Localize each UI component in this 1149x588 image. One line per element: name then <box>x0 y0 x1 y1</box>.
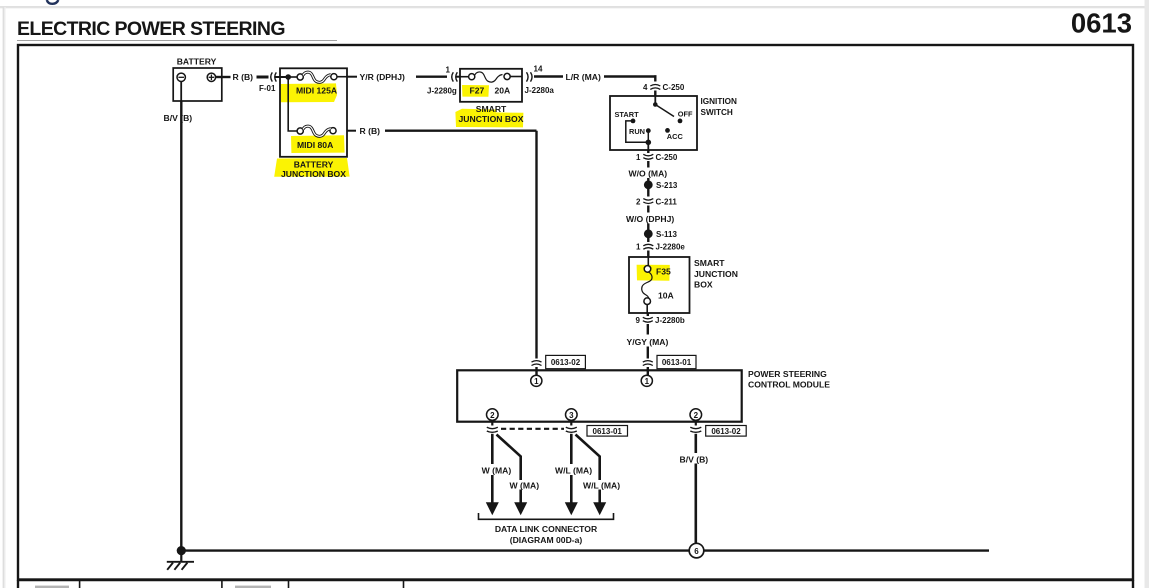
wire smart junction box to ignition switch <box>534 75 657 96</box>
svg-text:S-113: S-113 <box>656 230 677 239</box>
svg-text:1: 1 <box>645 377 650 386</box>
svg-text:ACC: ACC <box>667 132 684 141</box>
label BATTERY JUNCTION BOX <box>281 159 346 179</box>
wire stub pin 2 right <box>695 420 697 425</box>
svg-text:RUN: RUN <box>629 127 645 136</box>
svg-text:2: 2 <box>490 411 495 420</box>
wire W (MA) first <box>491 434 494 503</box>
highlight F35 <box>637 265 670 281</box>
smart junction box top <box>460 69 522 102</box>
highlight SMART JUNCTION BOX <box>455 109 523 128</box>
junction node in battery junction box <box>285 74 291 80</box>
svg-text:9: 9 <box>636 316 641 325</box>
svg-text:BATTERY: BATTERY <box>294 159 334 169</box>
ground symbol <box>167 550 194 570</box>
fuse F27 <box>460 72 522 82</box>
page right scrollbar strip <box>1145 0 1149 588</box>
svg-text:(DIAGRAM 00D-a): (DIAGRAM 00D-a) <box>510 535 583 545</box>
svg-text:SMART: SMART <box>694 258 725 268</box>
svg-text:MIDI 125A: MIDI 125A <box>296 86 337 96</box>
fuse MIDI 80A <box>297 126 336 136</box>
module pin 1 left <box>531 375 542 386</box>
svg-text:S-213: S-213 <box>656 181 678 190</box>
wire fuse MIDI 125A output to smart junction box <box>347 76 460 78</box>
svg-text:R (B): R (B) <box>233 72 254 82</box>
svg-text:0613: 0613 <box>1071 8 1132 39</box>
svg-text:MIDI 80A: MIDI 80A <box>297 140 333 150</box>
svg-text:W (MA): W (MA) <box>482 465 512 475</box>
svg-text:J-2280b: J-2280b <box>655 316 685 325</box>
splice S-213 <box>644 180 653 189</box>
connector 0613-01 symbol upper <box>643 361 653 366</box>
svg-text:W/O (DPHJ): W/O (DPHJ) <box>626 214 674 224</box>
svg-text:J-2280g: J-2280g <box>427 87 457 96</box>
data link connector bracket <box>479 513 614 519</box>
table divider 2 <box>221 581 223 588</box>
svg-text:C-250: C-250 <box>663 83 685 92</box>
wire battery to connector F-01 <box>216 76 288 78</box>
title underline remnant <box>17 39 337 42</box>
svg-text:1: 1 <box>636 243 641 252</box>
module pin 2 left <box>487 409 499 421</box>
svg-text:C-211: C-211 <box>656 197 678 206</box>
connector 1 J-2280e symbol <box>643 244 653 249</box>
connector 9 J-2280b symbol <box>643 317 653 322</box>
table divider 3 <box>288 581 290 588</box>
svg-text:BOX: BOX <box>694 279 713 289</box>
svg-text:OFF: OFF <box>678 109 693 118</box>
svg-text:4: 4 <box>643 83 648 92</box>
svg-text:SMART: SMART <box>476 104 507 114</box>
smart junction box lower <box>629 257 690 313</box>
wire junction to fuse MIDI 125A <box>288 76 297 78</box>
svg-text:BATTERY: BATTERY <box>177 57 217 67</box>
module pin 1 right <box>641 375 652 386</box>
svg-text:1: 1 <box>446 66 451 75</box>
svg-text:F-01: F-01 <box>259 84 276 93</box>
connector 1 C-250 symbol <box>643 154 653 159</box>
table divider 4 <box>403 581 405 588</box>
svg-text:20A: 20A <box>495 86 511 96</box>
wire junction down to fuse MIDI 80A <box>288 77 297 131</box>
reference tag 0613-02 upper <box>546 355 586 368</box>
svg-text:2: 2 <box>694 411 699 420</box>
svg-text:0613-02: 0613-02 <box>551 358 581 367</box>
frame left edge below table line <box>17 580 19 588</box>
wire stub pin 2 left <box>491 420 493 425</box>
frame right edge below table line <box>1132 580 1134 588</box>
ground junction dot <box>177 546 186 555</box>
svg-text:J-2280a: J-2280a <box>525 86 555 95</box>
svg-text:L/R (MA): L/R (MA) <box>566 72 601 82</box>
svg-text:POWER STEERING: POWER STEERING <box>748 369 827 379</box>
page top edge shadow <box>0 6 1149 8</box>
svg-text:B/V (B): B/V (B) <box>164 113 193 123</box>
svg-text:W/L (MA): W/L (MA) <box>583 480 620 490</box>
svg-text:IGNITION: IGNITION <box>701 97 737 106</box>
fuse F35 <box>642 257 652 313</box>
label IGNITION SWITCH <box>701 97 737 117</box>
connector symbol below pin 3 <box>566 427 577 432</box>
reference tag 0613-01 upper <box>657 355 696 368</box>
svg-text:DATA LINK CONNECTOR: DATA LINK CONNECTOR <box>495 524 598 534</box>
svg-text:W/L (MA): W/L (MA) <box>555 465 592 475</box>
arrow W (MA) second <box>514 502 527 515</box>
connector symbol below pin 2 left <box>487 427 498 432</box>
twisted pair dashes <box>501 428 564 430</box>
reference tag 0613-02 lower <box>706 426 747 437</box>
svg-text:3: 3 <box>569 411 574 420</box>
svg-text:10A: 10A <box>658 291 674 301</box>
battery junction box <box>280 68 347 157</box>
connector F-01 symbol <box>271 72 277 81</box>
svg-text:0613-01: 0613-01 <box>662 358 692 367</box>
wire B/V (B) to ground bus <box>694 434 697 543</box>
table divider 1 <box>79 581 81 588</box>
fuse MIDI 125A <box>297 72 337 82</box>
svg-text:F27: F27 <box>470 86 485 96</box>
highlight F27 <box>462 85 489 97</box>
arrow W/L (MA) second <box>593 502 606 515</box>
svg-text:Y/GY (MA): Y/GY (MA) <box>627 337 669 347</box>
table cell text 0613-02 partial <box>235 586 271 588</box>
highlight MIDI 125A <box>280 83 337 102</box>
module pin 3 <box>566 409 578 421</box>
connector J-2280a symbol <box>527 72 533 81</box>
svg-text:R (B): R (B) <box>360 126 381 136</box>
reference tag 0613-01 lower <box>587 426 628 437</box>
connector 0613-02 symbol upper <box>532 361 542 366</box>
svg-text:2: 2 <box>636 197 641 206</box>
page left edge shadow <box>3 7 6 588</box>
svg-text:14: 14 <box>534 65 543 74</box>
wire W (MA) second branch <box>497 435 521 503</box>
ignition switch internals <box>626 96 683 150</box>
wire smart junction box to module <box>647 313 649 375</box>
svg-text:1: 1 <box>636 153 641 162</box>
svg-text:0613-01: 0613-01 <box>593 427 623 436</box>
svg-text:SWITCH: SWITCH <box>701 108 733 117</box>
wire R (B) run to module <box>347 131 537 376</box>
wire W/L (MA) second branch <box>576 435 600 503</box>
wire ignition switch down chain <box>647 150 649 257</box>
svg-text:Y/R (DPHJ): Y/R (DPHJ) <box>360 72 405 82</box>
svg-text:CONTROL MODULE: CONTROL MODULE <box>748 380 830 390</box>
label POWER STEERING CONTROL MODULE <box>748 369 830 390</box>
svg-text:W/O (MA): W/O (MA) <box>629 168 668 178</box>
label SMART JUNCTION BOX top <box>459 104 524 124</box>
svg-text:1: 1 <box>534 377 539 386</box>
wire W/L (MA) first <box>570 434 573 503</box>
svg-text:W (MA): W (MA) <box>510 480 540 490</box>
table cell text 0613-01 partial <box>35 586 69 588</box>
svg-text:J-2280e: J-2280e <box>656 243 686 252</box>
connector J-2280g symbol <box>452 72 458 81</box>
ground bus wire <box>181 549 989 551</box>
connector 4 C-250 symbol <box>650 85 660 90</box>
connector symbol below pin 2 right <box>690 427 701 432</box>
wire stub pin 3 <box>570 420 572 425</box>
power steering control module box <box>457 370 742 421</box>
arrow W (MA) first <box>486 502 499 515</box>
battery <box>173 68 222 101</box>
module pin 2 right <box>690 409 702 421</box>
connector 2 C-211 symbol <box>643 199 653 204</box>
blue glyph fragment top <box>47 0 59 4</box>
wire fuse MIDI 125A to box edge <box>337 76 347 78</box>
svg-text:ELECTRIC POWER STEERING: ELECTRIC POWER STEERING <box>17 18 285 40</box>
svg-text:0613-02: 0613-02 <box>711 427 741 436</box>
ground node 6 <box>689 543 704 558</box>
svg-text:6: 6 <box>694 547 699 556</box>
svg-text:C-250: C-250 <box>656 153 678 162</box>
highlight MIDI 80A <box>291 135 345 153</box>
ignition switch box <box>610 96 697 150</box>
wire battery down to ground bus <box>180 101 182 551</box>
svg-text:JUNCTION BOX: JUNCTION BOX <box>281 169 346 179</box>
svg-text:JUNCTION BOX: JUNCTION BOX <box>459 114 524 124</box>
svg-text:F35: F35 <box>656 267 671 277</box>
label SMART JUNCTION BOX lower <box>694 258 738 289</box>
svg-text:B/V (B): B/V (B) <box>680 454 709 464</box>
svg-text:JUNCTION: JUNCTION <box>694 269 738 279</box>
arrow W/L (MA) first <box>565 502 578 515</box>
table top border <box>18 579 1133 581</box>
highlight BATTERY JUNCTION BOX <box>274 158 349 177</box>
svg-text:START: START <box>615 110 640 119</box>
splice S-113 <box>644 229 653 238</box>
